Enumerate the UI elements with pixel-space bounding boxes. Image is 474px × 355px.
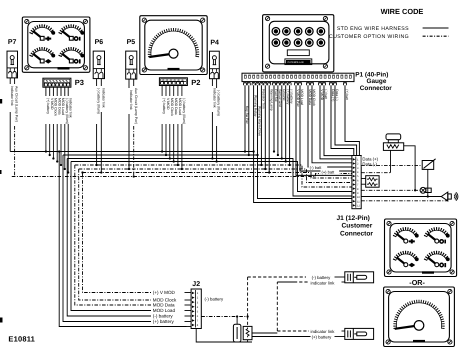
svg-text:MOD Data: MOD Data: [57, 98, 61, 115]
svg-text:P6: P6: [95, 39, 104, 46]
svg-text:MOD Clock: MOD Clock: [54, 98, 58, 116]
svg-text:MOD Data: MOD Data: [174, 98, 178, 115]
svg-text:Data (+): Data (+): [331, 89, 335, 101]
svg-text:CATERPILLAR: CATERPILLAR: [288, 61, 304, 64]
svg-text:Indicator link: Indicator link: [129, 90, 133, 110]
svg-text:indicator link: indicator link: [311, 281, 336, 286]
svg-text:CUSTOMER OPTION WIRING: CUSTOMER OPTION WIRING: [329, 34, 409, 40]
svg-text:V MOD: V MOD: [166, 98, 170, 110]
svg-text:P3: P3: [75, 78, 84, 87]
svg-text:MOD Data: MOD Data: [308, 89, 312, 105]
svg-text:(-) batt: (-) batt: [310, 165, 323, 170]
svg-text:MOD Clock: MOD Clock: [312, 89, 316, 106]
svg-text:WIRE CODE: WIRE CODE: [381, 7, 424, 16]
svg-text:(-) battery: (-) battery: [205, 296, 224, 301]
svg-text:(+) battery: (+) battery: [46, 98, 50, 114]
svg-text:MOD Load: MOD Load: [178, 98, 182, 115]
svg-text:MOD Clock: MOD Clock: [170, 98, 174, 116]
svg-text:V MOD: V MOD: [50, 98, 54, 110]
svg-text:indicator link: indicator link: [311, 329, 336, 334]
svg-text:P7: P7: [8, 39, 17, 46]
svg-text:-OR-: -OR-: [409, 278, 425, 287]
svg-text:(-) battery: (-) battery: [312, 275, 331, 280]
svg-text:(-) battery (Illum): (-) battery (Illum): [217, 90, 221, 116]
svg-text:(+) batt: (+) batt: [345, 89, 349, 100]
svg-text:Indicator link: Indicator link: [213, 88, 217, 108]
svg-text:Warning Lamp: Warning Lamp: [269, 89, 273, 110]
svg-text:P4: P4: [210, 40, 219, 47]
svg-text:Indicator link: Indicator link: [68, 98, 72, 118]
svg-text:(-) batt: (-) batt: [324, 89, 328, 99]
svg-text:J2: J2: [192, 281, 200, 288]
svg-text:P5: P5: [127, 39, 136, 46]
svg-text:Indicator link: Indicator link: [10, 86, 14, 106]
svg-text:(+) batt: (+) batt: [322, 169, 336, 174]
svg-text:Customer: Customer: [342, 223, 373, 230]
svg-text:V MOD Pwr: V MOD Pwr: [296, 89, 300, 107]
svg-text:Indicator link: Indicator link: [101, 88, 105, 108]
svg-text:P2: P2: [191, 78, 200, 87]
svg-text:J1 (12-Pin): J1 (12-Pin): [337, 215, 370, 222]
svg-text:(-) battery: (-) battery: [153, 314, 174, 319]
svg-text:(-) battery: (-) battery: [290, 89, 294, 104]
svg-text:Connector: Connector: [360, 85, 392, 92]
svg-text:E10811: E10811: [8, 334, 35, 343]
svg-text:Aux Circuit (Lamp Pwr): Aux Circuit (Lamp Pwr): [15, 86, 19, 122]
svg-text:(-) battery (Illum): (-) battery (Illum): [97, 88, 101, 114]
svg-text:Data (-): Data (-): [335, 89, 339, 100]
svg-text:(-) battery (Illum): (-) battery (Illum): [65, 98, 69, 124]
svg-text:MOD Load: MOD Load: [61, 98, 65, 115]
svg-text:Warning Relay: Warning Relay: [254, 95, 258, 117]
svg-text:V MOD: V MOD: [320, 89, 324, 100]
svg-text:(+) battery: (+) battery: [162, 98, 166, 114]
svg-text:Aux Circuit (Lamp Pwr): Aux Circuit (Lamp Pwr): [134, 88, 138, 124]
svg-text:(+) V MOD: (+) V MOD: [153, 290, 176, 295]
svg-text:Connector: Connector: [340, 230, 373, 237]
svg-text:(-) battery (Illum): (-) battery (Illum): [182, 98, 186, 124]
svg-text:MOD Load: MOD Load: [300, 89, 304, 105]
svg-text:(+) battery: (+) battery: [153, 319, 175, 324]
svg-text:MOD Load: MOD Load: [153, 308, 176, 313]
svg-text:(+) battery: (+) battery: [312, 335, 333, 340]
svg-text:MOD Data: MOD Data: [153, 303, 175, 308]
svg-text:STD ENG WIRE HARNESS: STD ENG WIRE HARNESS: [337, 26, 409, 32]
